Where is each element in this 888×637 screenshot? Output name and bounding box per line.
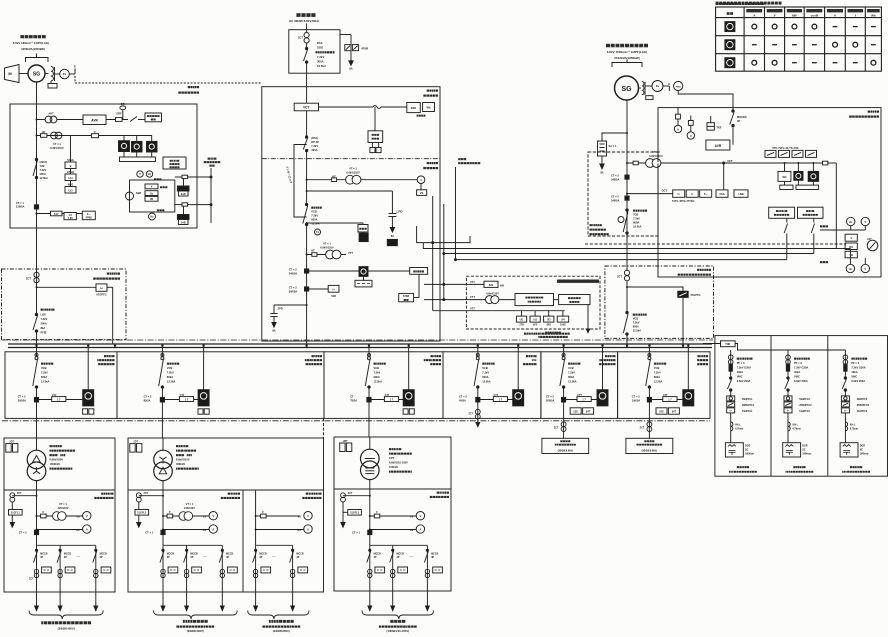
svg-text:U/1: U/1 xyxy=(520,319,524,322)
relay 2GS xyxy=(716,190,728,197)
capacitor section enclosure xyxy=(715,336,888,477)
ZCT G1 xyxy=(36,269,38,309)
sync cutoff box 2 xyxy=(798,207,824,218)
meter V-exc xyxy=(690,125,692,132)
LV bus s2 xyxy=(163,544,222,546)
svg-text:.....: ..... xyxy=(409,554,413,558)
svg-text:SC: SC xyxy=(860,449,864,452)
svg-text:VS: VS xyxy=(203,515,207,518)
bay A enclosure xyxy=(5,352,117,419)
wire LBS1 to bus xyxy=(36,332,38,348)
svg-text:12.5kA: 12.5kA xyxy=(568,380,576,384)
generator G1 rating label xyxy=(13,35,49,51)
svg-text:200A: 200A xyxy=(41,322,47,326)
riser to AVR panel xyxy=(432,196,434,243)
disconnect DS1 xyxy=(306,111,308,136)
switch PAS xyxy=(306,43,308,48)
svg-text:ERF: ERF xyxy=(116,111,122,115)
svg-text:600A: 600A xyxy=(633,221,639,225)
ground E2 xyxy=(663,85,669,87)
arrester N2 xyxy=(359,233,368,242)
relay 51GFL1 xyxy=(11,502,13,523)
wire to 67GPTG xyxy=(37,286,97,288)
svg-text:U/4: U/4 xyxy=(561,319,565,322)
svg-text:8A: 8A xyxy=(600,171,603,175)
bay E enclosure xyxy=(541,352,618,419)
svg-text:96B: 96B xyxy=(532,358,537,362)
svg-text:AS: AS xyxy=(297,529,301,532)
svg-text:6.6kV/110V: 6.6kV/110V xyxy=(486,293,499,296)
svg-text:1ΦT: 1ΦT xyxy=(389,456,395,460)
indicator box A xyxy=(515,294,554,306)
arrows s2 xyxy=(161,606,165,611)
fuse PF cap3 xyxy=(844,364,847,371)
synchro box ABF xyxy=(130,180,175,212)
sync riser extensions xyxy=(443,254,445,300)
fuse 8F-A xyxy=(677,108,679,115)
svg-text:TOR: TOR xyxy=(725,343,730,346)
svg-text:FPB5: FPB5 xyxy=(86,217,93,220)
svg-text:kWh: kWh xyxy=(411,106,417,110)
svg-text:Hz: Hz xyxy=(150,215,154,219)
CT turbine 2 xyxy=(611,195,619,203)
selector YB xyxy=(845,251,857,257)
relay LCG pair F xyxy=(656,408,667,414)
svg-text:(3Φ3W,6.6kV): (3Φ3W,6.6kV) xyxy=(558,450,573,453)
wire box B down xyxy=(587,305,589,329)
svg-text:Wh: Wh xyxy=(782,175,786,179)
svg-text:A5Y: A5Y xyxy=(867,238,872,241)
contactor S4B xyxy=(183,207,185,215)
MCCB s1-2 xyxy=(59,545,61,606)
pulse detector box xyxy=(374,107,376,131)
svg-text:V: V xyxy=(86,514,88,518)
junction dots sync xyxy=(443,253,445,255)
breaker 7CB xyxy=(626,209,628,211)
svg-text:CT × 2: CT × 2 xyxy=(18,395,26,399)
exciter EX xyxy=(60,69,70,79)
terminal bars T xyxy=(784,181,786,185)
ZCT bay E out xyxy=(563,388,565,438)
svg-text:A: A xyxy=(307,527,309,531)
sync riser wire xyxy=(835,163,837,249)
wire bay B feeder xyxy=(161,388,163,438)
arrows s1 xyxy=(35,606,39,611)
svg-text:400A: 400A xyxy=(40,172,46,176)
relay 79TG xyxy=(779,150,790,157)
table row M2 marks xyxy=(752,42,876,47)
controller box 555 xyxy=(163,157,186,169)
bus junction dots xyxy=(35,345,689,347)
sync wire E dashed xyxy=(585,243,846,245)
svg-text:MOCBX: MOCBX xyxy=(737,115,747,119)
ground ZPD xyxy=(272,323,276,328)
svg-text:Ex: Ex xyxy=(656,84,660,88)
synchroscope A5Y xyxy=(867,240,878,251)
svg-text:51GFL2: 51GFL2 xyxy=(137,512,146,515)
svg-text:600A: 600A xyxy=(633,325,639,329)
svg-text:7.2kV: 7.2kV xyxy=(40,168,47,172)
label bracket SG2 xyxy=(612,63,642,68)
meter V-gen xyxy=(864,226,866,230)
svg-text:600A: 600A xyxy=(482,375,488,379)
MCCB s1-1 xyxy=(36,545,38,606)
arrow out bay D xyxy=(476,423,480,427)
relay 43TG xyxy=(792,150,803,157)
svg-text:600A: 600A xyxy=(167,375,173,379)
svg-text:(2001): (2001) xyxy=(40,160,48,164)
section 3 divider xyxy=(334,488,451,490)
switch VMC cap2 xyxy=(787,371,789,377)
emergency lighting feed wire xyxy=(255,490,257,545)
svg-text:52G: 52G xyxy=(573,411,578,414)
breaker 32F2 xyxy=(368,348,370,357)
svg-text:300kVA: 300kVA xyxy=(176,462,185,466)
switch VMC cap1 xyxy=(730,371,732,377)
interlock bracket xyxy=(294,145,307,218)
svg-text:F: F xyxy=(43,510,45,514)
ZCT 2GT s1 xyxy=(12,495,36,497)
main bus 6.6kV xyxy=(8,343,712,345)
switch under box1 xyxy=(786,218,788,222)
svg-text:51GFL3: 51GFL3 xyxy=(350,512,359,515)
meter A-exc xyxy=(677,119,679,125)
CT G1 xyxy=(16,201,24,209)
svg-text:8A: 8A xyxy=(391,234,394,238)
svg-text:AS: AS xyxy=(410,529,414,532)
meter Hz-gen xyxy=(820,229,865,231)
relay Hz-b xyxy=(145,191,158,196)
svg-text:ZCT: ZCT xyxy=(617,275,622,279)
svg-text:S7KB: S7KB xyxy=(403,295,410,298)
svg-text:Wh: Wh xyxy=(871,13,876,17)
svg-text:52G: 52G xyxy=(659,411,664,414)
svg-text:150kVA: 150kVA xyxy=(389,465,398,469)
relay 97S xyxy=(534,311,536,316)
svg-text:kW: kW xyxy=(500,283,504,287)
meter M-F bay F xyxy=(687,348,689,390)
svg-text:VS: VS xyxy=(420,191,424,195)
relay VB xyxy=(145,196,158,201)
svg-text:6.7kvar: 6.7kvar xyxy=(735,428,743,431)
relay 51TG xyxy=(673,190,685,197)
fuse PF cap2 xyxy=(786,364,789,371)
svg-text:6.6kV 180min⁻¹ 0.8PF(LAG): 6.6kV 180min⁻¹ 0.8PF(LAG) xyxy=(13,41,49,45)
svg-text:6.6kV 200A: 6.6kV 200A xyxy=(737,379,751,383)
breaker 32F3 xyxy=(477,348,479,357)
wire bay C feeder xyxy=(368,388,370,437)
svg-text:ZCT: ZCT xyxy=(640,427,645,430)
ZCT bay F out xyxy=(648,388,650,438)
panel PVG1 enclosure xyxy=(2,269,127,340)
wire between A and B xyxy=(554,299,559,301)
MCCB s2-2 xyxy=(186,545,188,606)
svg-text:V: V xyxy=(307,514,309,518)
ZCT cap1 xyxy=(728,355,733,360)
sync wire B xyxy=(423,243,836,249)
fuse F-sync xyxy=(823,161,828,165)
relay T-85 xyxy=(64,213,76,220)
transformer 3FT1 xyxy=(36,438,38,450)
label to fan panel xyxy=(458,158,480,164)
svg-text:6% L: 6% L xyxy=(850,424,856,427)
svg-text:7.2kV: 7.2kV xyxy=(482,371,489,375)
meter A sub xyxy=(256,529,304,531)
meter V-sync xyxy=(137,171,143,177)
svg-text:59HPFC3: 59HPFC3 xyxy=(857,398,868,401)
svg-text:6.6kV/210V: 6.6kV/210V xyxy=(176,458,190,462)
selector US xyxy=(417,190,427,196)
relay S7KB xyxy=(399,293,414,301)
svg-text:VT × 1: VT × 1 xyxy=(323,242,331,246)
wire row1 kW xyxy=(424,283,484,285)
CT turbine 1 xyxy=(611,174,619,182)
breaker CB1 xyxy=(305,203,307,205)
switch LBS1 xyxy=(41,309,55,335)
panel HV enclosure xyxy=(262,87,440,341)
svg-text:PAS: PAS xyxy=(317,41,323,45)
meter Wh1 xyxy=(123,136,125,141)
indicator box B xyxy=(559,295,590,305)
exciter field coil xyxy=(51,67,53,81)
arrester box LA2 xyxy=(387,239,397,245)
surge branch wire xyxy=(307,190,393,192)
capacitor feeder 1 wire xyxy=(730,350,732,364)
svg-text:OCY: OCY xyxy=(662,189,668,193)
svg-text:8kA: 8kA xyxy=(41,326,46,330)
svg-text:85/5A: 85/5A xyxy=(144,399,151,403)
svg-text:160kvar: 160kvar xyxy=(860,453,869,456)
svg-text:(3Φ3W,200V): (3Φ3W,200V) xyxy=(273,629,290,633)
wire row2 VT xyxy=(424,299,515,301)
svg-text:59HPFC2: 59HPFC2 xyxy=(799,398,810,401)
svg-text:f: f xyxy=(855,13,856,17)
ZCT 2GT s3 xyxy=(343,495,370,497)
LV bus s3 xyxy=(370,544,428,546)
svg-text:12.5kA: 12.5kA xyxy=(311,222,319,226)
VT1 xyxy=(51,132,58,139)
relay 51HPFC3 xyxy=(841,408,849,413)
relay 47GPTG xyxy=(678,291,688,297)
series reactor cap1 xyxy=(731,422,733,431)
exciter EX2 xyxy=(652,81,663,92)
breaker 32F5 xyxy=(648,348,650,357)
VT s2 xyxy=(184,502,195,510)
meter A s3 xyxy=(370,529,416,531)
svg-text:PF × 3: PF × 3 xyxy=(851,361,859,365)
sync wire C xyxy=(444,204,814,254)
svg-text:8A: 8A xyxy=(272,329,275,333)
svg-text:100/5A: 100/5A xyxy=(632,399,640,403)
svg-text:CT × 2: CT × 2 xyxy=(546,395,554,399)
svg-text:3P: 3P xyxy=(296,556,299,559)
ground LPD xyxy=(390,228,394,233)
relay 51GFL3 xyxy=(342,502,344,523)
wire to battery riser xyxy=(188,176,211,178)
svg-text:7.2kV: 7.2kV xyxy=(167,371,174,375)
PAS enclosure xyxy=(289,30,340,73)
aux box bay B xyxy=(198,409,203,414)
label 3PL3-B xyxy=(524,333,570,335)
grounding resistor SG2 xyxy=(598,141,607,156)
svg-text:2DT: 2DT xyxy=(343,440,348,443)
relay V-b xyxy=(145,184,158,189)
svg-text:Y2B: Y2B xyxy=(40,164,45,168)
svg-text:6.7kvar: 6.7kvar xyxy=(850,428,858,431)
svg-text:51R: 51R xyxy=(331,294,336,298)
disconnect switch DS-G xyxy=(36,154,38,159)
relay 829 xyxy=(484,281,498,287)
arrows s3 xyxy=(368,606,372,611)
svg-text:6% L: 6% L xyxy=(793,424,799,427)
meter M-E bay E xyxy=(602,348,604,390)
CT bay B xyxy=(144,395,152,403)
wire SG1 down to PG1 xyxy=(36,82,38,104)
panel PTG1 enclosure xyxy=(588,152,658,236)
svg-text:7.2kV: 7.2kV xyxy=(568,371,575,375)
capacitor feeder 2 wire xyxy=(787,350,789,364)
svg-text:210/110V: 210/110V xyxy=(184,506,195,510)
grounding branch SG2 xyxy=(602,133,627,141)
svg-text:CT × 2: CT × 2 xyxy=(289,286,297,290)
turbine generator rating label xyxy=(606,44,648,60)
wire PMG to MOCB xyxy=(678,91,733,110)
table row M1 marks xyxy=(752,24,876,29)
wire EX to ground xyxy=(69,73,75,75)
sync wire A xyxy=(417,226,470,243)
relay 51HPFC2 xyxy=(784,408,792,413)
svg-text:2N5HPFC2: 2N5HPFC2 xyxy=(799,404,812,407)
metering VCT xyxy=(294,103,318,111)
meter M1 bay A xyxy=(87,348,89,390)
svg-text:kW: kW xyxy=(792,13,797,17)
box TOR xyxy=(721,341,736,347)
AVR U-AVR xyxy=(83,115,106,125)
capacitor bank DGR2 xyxy=(783,443,801,457)
svg-text:LPD: LPD xyxy=(397,210,404,214)
CT s3 xyxy=(368,530,372,534)
VT incoming xyxy=(346,167,360,175)
MCCB s3-2 xyxy=(392,545,394,606)
svg-text:ZPD: ZPD xyxy=(278,307,283,311)
svg-text:12.5kA: 12.5kA xyxy=(654,380,662,384)
svg-text:V: V xyxy=(690,134,692,138)
svg-text:T-85: T-85 xyxy=(68,217,73,220)
ground s3 xyxy=(341,523,345,528)
svg-text:TKF: TKF xyxy=(716,126,721,130)
meter Wh-in xyxy=(423,103,435,112)
wire AKT to AVR xyxy=(37,119,46,121)
svg-text:6.6kV 1500min⁻¹ 0.8PF(LAG): 6.6kV 1500min⁻¹ 0.8PF(LAG) xyxy=(607,50,647,54)
svg-text:67GPTG: 67GPTG xyxy=(96,293,106,297)
meter M2 xyxy=(812,163,814,171)
test block CTT C xyxy=(371,399,403,401)
aux box bay C xyxy=(403,409,408,414)
svg-text:7.2kV G20A: 7.2kV G20A xyxy=(794,366,808,370)
meter Hz-sync xyxy=(146,171,152,177)
svg-text:2DT: 2DT xyxy=(134,440,139,443)
svg-text:7.2kV: 7.2kV xyxy=(633,321,640,325)
svg-text:VT7: VT7 xyxy=(470,280,475,284)
feeder row dashed boundary xyxy=(2,420,710,422)
svg-text:V: V xyxy=(834,13,836,17)
svg-text:VCB: VCB xyxy=(311,210,317,214)
wire CT to meter M1r xyxy=(309,270,359,272)
relay 54SG xyxy=(70,136,72,187)
svg-text:VCT: VCT xyxy=(303,106,309,110)
boundary dash-dot line xyxy=(2,339,713,341)
metering table grid xyxy=(716,7,882,71)
svg-text:CT × 1: CT × 1 xyxy=(145,531,153,535)
section 2 divider xyxy=(128,489,324,491)
svg-text:7CB: 7CB xyxy=(633,213,638,217)
svg-text:F: F xyxy=(94,130,96,134)
svg-text:SOG: SOG xyxy=(317,46,323,50)
fuse F-S4R xyxy=(175,176,182,178)
svg-text:CT × 2: CT × 2 xyxy=(289,268,297,272)
svg-text:3P: 3P xyxy=(737,119,740,123)
meter A s2 xyxy=(163,529,209,531)
test block CTT B xyxy=(165,399,199,401)
wire PAS to HV panel xyxy=(306,73,308,103)
svg-text:45/5A: 45/5A xyxy=(459,399,466,403)
relay 59HPFC3 xyxy=(841,396,849,401)
svg-text:VCB: VCB xyxy=(633,317,639,321)
svg-text:インターロック: インターロック xyxy=(285,165,293,184)
svg-text:VMC: VMC xyxy=(737,375,743,379)
svg-text:160kvar: 160kvar xyxy=(745,453,754,456)
relay 51 incoming xyxy=(315,229,321,235)
pulse aux contacts xyxy=(370,148,375,153)
svg-text:7.2kV G20A: 7.2kV G20A xyxy=(851,366,865,370)
CT bay C xyxy=(350,395,357,403)
fuse F-S4B xyxy=(175,204,182,206)
relay 52G2 pair xyxy=(570,408,581,414)
svg-text:A: A xyxy=(677,127,679,131)
relay 51R xyxy=(309,288,329,290)
svg-text:340/5A: 340/5A xyxy=(611,198,619,202)
bay B enclosure xyxy=(117,352,324,419)
svg-text:600A: 600A xyxy=(311,218,317,222)
svg-text:S4B: S4B xyxy=(181,221,186,225)
svg-text:VT × 1: VT × 1 xyxy=(59,502,67,506)
test terminal bar xyxy=(123,152,125,158)
capacitor bank DGR1 xyxy=(725,443,743,457)
svg-text:12.5kA: 12.5kA xyxy=(41,380,49,384)
relay 100S xyxy=(562,311,564,316)
dashed tie bayB to section2 xyxy=(323,418,325,438)
svg-text:CT × 1: CT × 1 xyxy=(352,531,360,535)
exciter coil SG2 xyxy=(642,82,644,95)
wire SG2 to exciter xyxy=(639,87,642,89)
svg-text:V: V xyxy=(864,220,866,224)
relay 2N5HPFC2 xyxy=(784,402,792,407)
svg-text:CT × 2: CT × 2 xyxy=(144,395,152,399)
svg-text:AVR: AVR xyxy=(91,118,98,122)
svg-text:7.2kV G20A: 7.2kV G20A xyxy=(737,366,751,370)
VT s1 xyxy=(58,502,69,510)
bay D enclosure xyxy=(443,352,541,419)
svg-text:A: A xyxy=(86,527,88,531)
field discharge box xyxy=(48,84,57,89)
svg-text:SC: SC xyxy=(802,449,806,452)
ground SG2 xyxy=(601,156,603,164)
svg-text:CT: CT xyxy=(350,395,354,399)
svg-text:6.6kV/110V: 6.6kV/110V xyxy=(50,146,64,150)
meter M1r xyxy=(359,267,368,277)
svg-text:LA: LA xyxy=(391,242,394,245)
svg-text:3P: 3P xyxy=(259,556,262,559)
